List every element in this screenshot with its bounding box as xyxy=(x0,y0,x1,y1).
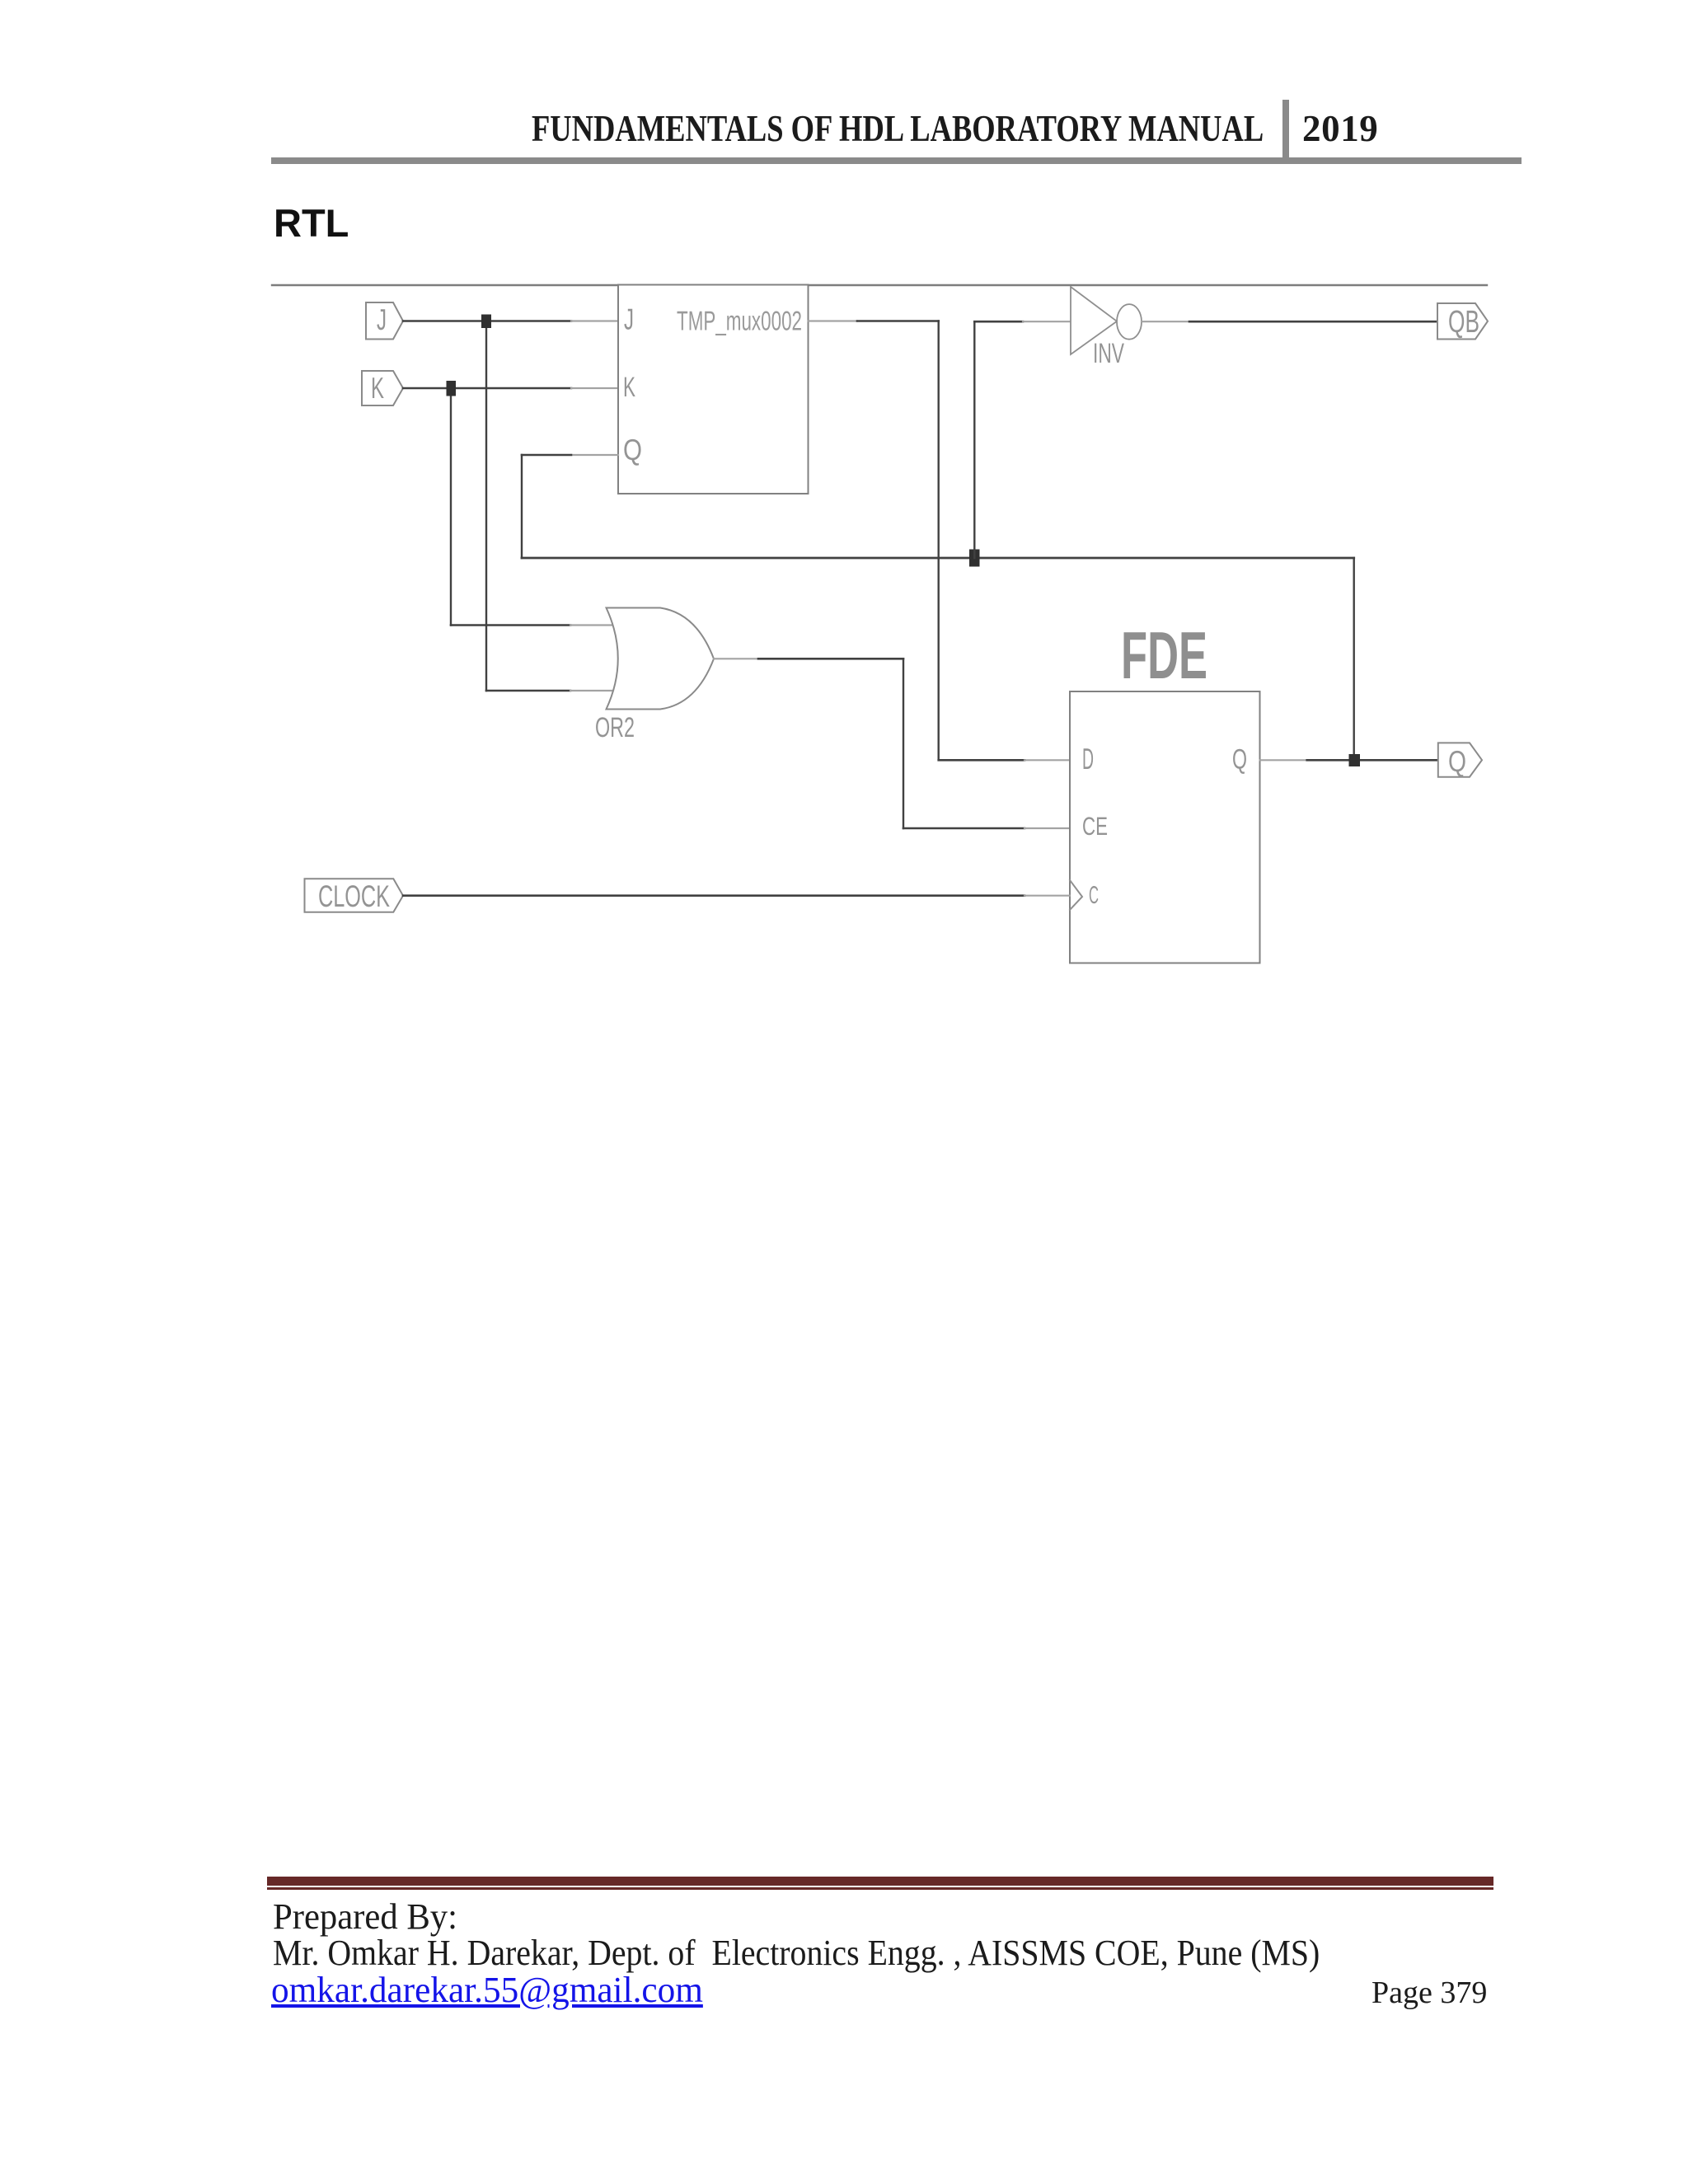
svg-text:K: K xyxy=(623,372,635,403)
input port J xyxy=(366,302,403,340)
section heading RTL xyxy=(274,200,349,246)
header horizontal rule xyxy=(271,157,1522,164)
svg-text:J: J xyxy=(624,302,634,336)
output port Q xyxy=(1438,743,1482,778)
wire net J : port J to TMP_mux0002 pin J xyxy=(403,321,618,691)
junction on net K xyxy=(447,381,457,396)
svg-text:J: J xyxy=(377,302,387,336)
svg-text:Q: Q xyxy=(1448,744,1466,778)
svg-text:C: C xyxy=(1089,882,1099,909)
footer email link xyxy=(271,1969,703,2011)
block TMP_mux0002 xyxy=(618,285,809,494)
svg-text:CLOCK: CLOCK xyxy=(318,879,390,913)
inverter INV xyxy=(1071,287,1142,369)
junction on net Q xyxy=(1349,754,1361,766)
footer thin maroon line xyxy=(267,1887,1493,1890)
wire net QB : INV output to port QB xyxy=(1142,321,1437,322)
wire INV input tap xyxy=(974,321,1070,558)
wire net from TMP_mux0002 output to FDE pin D xyxy=(809,321,1071,761)
block FDE flip-flop xyxy=(1070,619,1260,963)
footer thick maroon bar xyxy=(267,1877,1493,1886)
header vertical divider bar xyxy=(1282,100,1289,162)
clock wedge of FDE pin C xyxy=(1070,880,1082,910)
footer page number xyxy=(1371,1975,1487,2011)
output port QB xyxy=(1437,303,1488,340)
junction on feedback net at INV tap xyxy=(969,550,980,567)
OR gate OR2 xyxy=(595,608,714,744)
svg-text:OR2: OR2 xyxy=(595,712,635,743)
svg-text:TMP_mux0002: TMP_mux0002 xyxy=(677,306,802,336)
wire net Q feedback : TMP_mux0002 pin Q to FDE output net xyxy=(522,455,1354,760)
footer line author xyxy=(273,1932,1320,1974)
wire net OR2 output to FDE pin CE xyxy=(714,658,1070,828)
junction on net J xyxy=(481,315,491,329)
header year 2019 xyxy=(1302,107,1378,150)
wire net Q : FDE output Q to port Q xyxy=(1260,759,1438,761)
svg-text:Q: Q xyxy=(623,433,642,466)
svg-text:Q: Q xyxy=(1232,744,1247,776)
svg-text:QB: QB xyxy=(1448,305,1479,340)
wire net CLOCK : port CLOCK to FDE pin C xyxy=(403,894,1070,897)
wire net K : port K to TMP_mux0002 pin K xyxy=(403,388,618,626)
svg-text:K: K xyxy=(371,371,384,405)
svg-text:D: D xyxy=(1082,742,1094,776)
svg-text:INV: INV xyxy=(1093,338,1124,369)
footer line Prepared By xyxy=(273,1896,457,1938)
svg-text:CE: CE xyxy=(1082,812,1108,841)
header title text xyxy=(532,107,1264,150)
input port K xyxy=(362,371,403,405)
input port CLOCK xyxy=(305,879,404,913)
svg-text:FDE: FDE xyxy=(1121,619,1207,693)
